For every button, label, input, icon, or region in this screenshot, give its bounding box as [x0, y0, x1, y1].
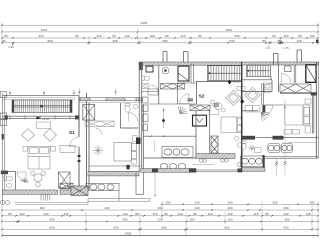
right unit east wall — [316, 62, 318, 158]
corridor wall y105 (right) — [263, 104, 286, 106]
svg-text:530: 530 — [229, 39, 234, 43]
armchair diamond (middle living) — [226, 90, 242, 106]
elevation flag +2.05 — [37, 117, 42, 122]
svg-text:620: 620 — [224, 225, 229, 229]
hall north wall (cut) — [80, 98, 142, 101]
exterior steps (left unit) — [41, 195, 50, 201]
svg-text:240: 240 — [283, 212, 288, 216]
shower dark box (middle) — [193, 115, 207, 126]
left unit south wall (cut, hatched) — [3, 190, 58, 194]
bath NW south wall — [141, 91, 159, 93]
svg-text:140: 140 — [124, 34, 129, 38]
vertical dim guide x285 (right) — [284, 100, 287, 175]
right unit south wall (cut) — [242, 168, 265, 172]
dresser below bed — [284, 130, 300, 135]
door threshold bars (left bedroom) — [78, 155, 81, 162]
right unit north wall (cut) — [242, 62, 319, 65]
svg-text:530: 530 — [234, 34, 239, 38]
dark shaft box (stairwell core) — [177, 64, 196, 84]
kitchen tall unit column (middle) — [143, 97, 149, 131]
svg-text:400: 400 — [39, 206, 44, 210]
svg-text:80: 80 — [193, 212, 197, 216]
svg-text:S2: S2 — [199, 94, 205, 99]
dining table round — [31, 171, 46, 187]
kitchen counter with sink and hobs — [86, 183, 119, 190]
door arc (middle corridor) — [210, 105, 219, 114]
vent stack 2 — [297, 50, 302, 62]
dimension line detail row 3 (top) — [2, 37, 318, 39]
wc toilet — [125, 104, 130, 113]
kitchen wall (cut, hatched) — [88, 171, 139, 176]
west facade boxes — [0, 92, 7, 126]
mid bedroom south wall — [89, 165, 141, 167]
svg-text:190: 190 — [189, 218, 194, 222]
svg-text:390: 390 — [112, 39, 117, 43]
vent stack middle-2 — [184, 52, 189, 65]
wc door arc — [129, 113, 138, 122]
door threshold bars — [188, 99, 194, 101]
armchair diamond (right living) — [245, 87, 261, 103]
dimension line 1470/1010 (top row 2) — [2, 31, 318, 33]
bedroom east wall (right) — [312, 94, 314, 134]
svg-text:210: 210 — [96, 34, 101, 38]
terrace south edge (middle) — [196, 170, 242, 172]
section marker A — [127, 165, 130, 170]
svg-text:130: 130 — [309, 34, 314, 38]
left unit south wall segment 2 — [60, 190, 72, 194]
door sunburst (middle corridor) — [178, 106, 187, 114]
svg-text:2465: 2465 — [141, 21, 148, 25]
svg-text:80: 80 — [272, 34, 276, 38]
shelf rect (middle living) — [237, 87, 245, 91]
extension guide lines (bottom) — [2, 201, 318, 237]
door arc (middle hall) — [180, 94, 190, 104]
cupboard NE of bedroom — [60, 146, 75, 153]
nightstand S (mid bedroom) — [131, 159, 137, 164]
wall lamp sunburst — [21, 178, 29, 182]
bath east wall (middle) — [195, 111, 197, 159]
svg-text:80: 80 — [135, 212, 139, 216]
kitchen sink pair (right) — [268, 144, 280, 153]
coffee table — [36, 122, 51, 128]
corridor wall under stairs (right) — [242, 77, 272, 80]
south wall dark mass (mid strip) — [71, 186, 88, 196]
middle unit north wall (cut) — [139, 62, 243, 65]
svg-text:85: 85 — [8, 212, 12, 216]
terrace line y164.5 — [193, 164, 214, 166]
chairs (middle living south) — [234, 136, 242, 147]
svg-text:390: 390 — [283, 206, 288, 210]
tall wardrobe with X (hall) — [83, 105, 95, 121]
toilet (right bath) — [241, 141, 246, 149]
svg-text:1010: 1010 — [226, 28, 233, 32]
svg-text:200: 200 — [227, 200, 232, 204]
left unit window wall south of deck — [3, 116, 80, 118]
svg-text:80: 80 — [2, 39, 6, 43]
right unit inner wall 2 — [294, 65, 296, 83]
door arc x262 (right hall) — [264, 83, 272, 91]
right unit inner wall 1 — [278, 65, 280, 92]
wc sink — [133, 104, 138, 109]
bath NW: toilet — [142, 76, 150, 81]
vent stack middle-1 — [163, 52, 167, 65]
bath north wall with ticks (middle) — [143, 135, 196, 137]
window with X (south, hall strip) — [60, 183, 73, 189]
svg-text:290: 290 — [104, 206, 109, 210]
svg-text:120: 120 — [296, 39, 301, 43]
dimension line bottom row 4 — [2, 228, 318, 230]
lower vanity counter (right) — [241, 156, 264, 167]
extension guide lines (top) — [2, 22, 318, 45]
kitchen counter edge (right) — [288, 142, 317, 144]
svg-text:1470: 1470 — [41, 28, 48, 32]
hall wall underline — [80, 101, 142, 103]
bath inner wall y158 (middle) — [143, 157, 196, 159]
svg-text:+1.28: +1.28 — [233, 80, 241, 84]
stair south wall — [196, 81, 242, 83]
svg-text:2465: 2465 — [125, 232, 132, 236]
svg-text:290: 290 — [122, 218, 127, 222]
left unit outer west wall — [3, 93, 5, 205]
svg-text:80: 80 — [262, 39, 266, 43]
staircase (right unit) — [247, 65, 271, 76]
window wall end posts — [5, 115, 79, 119]
wardrobe with X (left unit) — [59, 172, 71, 188]
dark corner block SW bath — [1, 171, 8, 175]
svg-text:415: 415 — [113, 225, 118, 229]
armchair 1 (diamond) — [22, 129, 35, 142]
dining table (middle living) — [211, 100, 226, 112]
svg-text:1.75: 1.75 — [283, 46, 289, 50]
svg-text:140: 140 — [194, 200, 199, 204]
armchair 2 (diamond) — [44, 129, 57, 142]
vanity small (right bath) — [255, 148, 262, 153]
low cabinets (right corridor) — [245, 106, 260, 113]
sink (left unit) — [7, 183, 12, 188]
svg-text:620: 620 — [49, 225, 54, 229]
dark wall stub bedroom door (right) — [262, 105, 265, 112]
bed (middle unit bedroom) — [221, 117, 242, 133]
wardrobe X tall (middle) — [211, 136, 218, 153]
bedroom north wall (right) — [242, 110, 258, 112]
svg-text:110: 110 — [153, 212, 158, 216]
stair arrow (right) — [247, 70, 266, 72]
bed (right unit) — [285, 105, 310, 125]
svg-text:190: 190 — [165, 200, 170, 204]
svg-text:230: 230 — [43, 212, 48, 216]
left unit north window lines — [3, 98, 76, 100]
guide marks above deck — [10, 90, 74, 97]
wc partition wall — [121, 103, 139, 128]
bedroom door sunburst (right) — [261, 113, 270, 122]
shared wall left/middle unit — [136, 63, 144, 195]
svg-text:400: 400 — [227, 206, 232, 210]
svg-text:+2.05: +2.05 — [42, 117, 50, 121]
dimension line bottom total 2465 — [2, 235, 318, 237]
svg-text:120: 120 — [207, 212, 212, 216]
fixtures at SW corner — [0, 200, 9, 204]
svg-text:650: 650 — [47, 39, 52, 43]
svg-text:230: 230 — [227, 212, 232, 216]
shelves right of wall x262 — [265, 85, 271, 93]
svg-text:380: 380 — [284, 218, 289, 222]
door threshold bars 2 (bedroom middle) — [214, 104, 220, 106]
svg-text:140: 140 — [305, 212, 310, 216]
terrace chairs (middle) — [199, 159, 241, 167]
entry door dark box (right) — [306, 65, 316, 83]
vertical wall x119 stub — [118, 191, 120, 202]
bath NW east wall — [158, 65, 160, 104]
living room east wall — [78, 96, 80, 190]
door arc (right hall) — [282, 74, 291, 83]
hall wall (middle unit) — [196, 82, 198, 105]
svg-text:80: 80 — [112, 34, 116, 38]
svg-text:80: 80 — [4, 34, 8, 38]
nightstand N (mid bedroom) — [133, 136, 138, 142]
svg-text:120: 120 — [283, 34, 288, 38]
bath NW: boiler dark box — [146, 66, 153, 72]
south wall dark blocks (middle) — [152, 169, 242, 173]
svg-text:80: 80 — [165, 34, 169, 38]
svg-text:80: 80 — [164, 212, 168, 216]
nightstand right — [51, 146, 56, 151]
kitchen hob pair (right) — [281, 144, 292, 153]
south window wall hatched (middle) — [196, 154, 235, 159]
wall below shaft — [177, 83, 179, 104]
dark cabinet west of wall — [136, 138, 141, 145]
terrace slab edge lines — [15, 202, 88, 204]
dark corner block NW (middle) — [139, 62, 143, 70]
bath west wall (middle) — [142, 104, 144, 169]
right unit hall south wall — [242, 80, 272, 92]
bed (mid strip bedroom) — [114, 142, 136, 161]
nightstand top (right bedroom) — [305, 99, 311, 104]
door arc hall to living — [69, 137, 79, 147]
bath NW: washing machine — [162, 67, 169, 74]
sink box (right hall) — [285, 66, 292, 72]
dimension line detail row 4 (top) — [2, 42, 318, 44]
svg-text:80: 80 — [198, 34, 202, 38]
left unit north edge line — [3, 95, 80, 97]
dimension line bottom row 2 — [2, 215, 318, 217]
south window wall (right, thin) — [262, 157, 318, 159]
low cabinet X (middle corridor) — [190, 105, 210, 111]
bed (left unit) — [28, 146, 50, 169]
inner wall x209 (middle) — [208, 111, 210, 154]
door arc hall to mid bedroom — [96, 128, 103, 135]
slab edge right part — [88, 199, 150, 205]
svg-text:330: 330 — [38, 34, 43, 38]
interior dim line (middle) — [154, 140, 156, 152]
bath NW: vanity — [142, 84, 149, 89]
appliance box (middle kitchen top) — [148, 89, 158, 95]
dimension line bottom row 0 (right part) — [162, 203, 318, 205]
svg-text:140: 140 — [194, 206, 199, 210]
dimension line bottom row 1 — [2, 209, 318, 211]
svg-text:1.25: 1.25 — [8, 45, 14, 49]
wall x262.5 (right) — [262, 83, 264, 105]
west wall window segment — [2, 134, 4, 140]
middle unit south wall (cut) — [141, 169, 196, 173]
elevation diamond (right living) — [240, 99, 244, 104]
dark wall stub x262 (right) — [263, 155, 265, 168]
svg-text:110: 110 — [20, 212, 25, 216]
guide marks above hall wall — [79, 88, 115, 96]
svg-text:80: 80 — [75, 34, 79, 38]
vertical dim with break (right) — [276, 158, 278, 176]
window mullion ticks (left unit north) — [10, 115, 70, 119]
svg-text:160: 160 — [227, 218, 232, 222]
bedroom north wall line (right) — [280, 93, 312, 95]
door arc bedroom (right) — [263, 105, 273, 115]
svg-text:390: 390 — [272, 200, 277, 204]
svg-text:410: 410 — [283, 225, 288, 229]
svg-text:265: 265 — [161, 225, 166, 229]
middle unit east wall — [241, 62, 243, 172]
svg-text:80: 80 — [265, 212, 269, 216]
terrace deck band (left unit north) — [12, 100, 72, 113]
dark wall block NE bedroom — [311, 92, 317, 95]
sunburst (right bath) — [248, 146, 255, 150]
bath north wall (right) with dark blocks — [242, 137, 318, 139]
svg-text:100: 100 — [149, 34, 154, 38]
svg-text:130: 130 — [63, 212, 68, 216]
sideboard X (middle hall) — [161, 84, 185, 90]
staircase (middle unit) — [208, 66, 243, 81]
corridor wall (middle) — [149, 103, 197, 105]
svg-text:80: 80 — [298, 34, 302, 38]
wardrobe X wide (right bedroom) — [280, 84, 311, 93]
vertical dim x155 (below middle unit) — [154, 170, 156, 196]
dimension line total 2465 (top row 1) — [2, 24, 318, 26]
nightstand bottom (right bedroom) — [305, 126, 311, 133]
bathroom door arc (left unit) — [17, 172, 26, 181]
elevation marker +2.05 (middle) — [228, 80, 232, 85]
svg-text:230: 230 — [177, 212, 182, 216]
bathroom partition (left unit) — [3, 172, 16, 191]
low cabinet with X (hall) — [85, 121, 114, 127]
svg-text:1.52: 1.52 — [265, 46, 271, 50]
vanity counter with basins (middle bath) — [162, 147, 193, 158]
svg-text:210: 210 — [180, 34, 185, 38]
toilet (left unit) — [4, 176, 13, 181]
svg-text:140: 140 — [122, 212, 127, 216]
bath NW door arc — [151, 85, 159, 93]
row4 end mark — [316, 40, 319, 43]
svg-text:505: 505 — [49, 218, 54, 222]
svg-text:S1: S1 — [69, 130, 75, 135]
vertical dim column (middle west) — [162, 108, 165, 128]
svg-text:380: 380 — [162, 39, 167, 43]
vent stack 1 — [274, 54, 279, 66]
sunburst (mid bedroom) — [93, 146, 103, 156]
dimension line bottom row 3 — [2, 221, 318, 223]
svg-text:115: 115 — [254, 212, 259, 216]
nightstand left — [23, 146, 28, 151]
hall west wall (double) — [87, 93, 90, 196]
fixtures row near south wall (middle) — [160, 163, 185, 169]
